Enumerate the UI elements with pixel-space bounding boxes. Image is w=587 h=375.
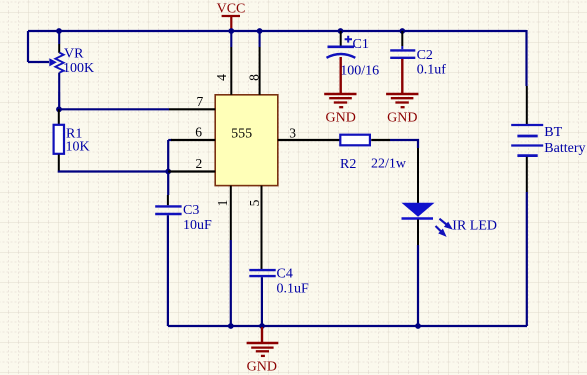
svg-text:Battery: Battery <box>544 141 585 156</box>
svg-text:22/1w: 22/1w <box>371 157 407 172</box>
wire: R2 to LED corner <box>390 140 418 148</box>
wire: pin6 horizontal <box>168 139 172 141</box>
svg-text:IR LED: IR LED <box>452 219 497 234</box>
wire: VR bottom to pin7 node <box>58 92 60 109</box>
svg-text:0.1uf: 0.1uf <box>417 63 447 78</box>
node: junction dot pin2/C3 <box>165 169 171 175</box>
svg-text:8: 8 <box>247 74 262 81</box>
svg-text:GND: GND <box>247 360 277 375</box>
svg-text:VR: VR <box>64 47 84 62</box>
pin 8 stub <box>259 31 261 47</box>
wire: bottom rail <box>168 325 527 327</box>
capacitor C3 10uF <box>155 195 212 233</box>
pin 1 stub <box>230 186 232 240</box>
capacitor C4 0.1uF <box>249 267 309 297</box>
svg-text:C1: C1 <box>353 37 369 52</box>
svg-text:100/16: 100/16 <box>340 63 379 78</box>
capacitor C1 100/16 (polarized) <box>327 31 380 78</box>
wire: R1 bottom to pin2 <box>59 171 168 172</box>
svg-text:3: 3 <box>289 126 296 141</box>
svg-text:10K: 10K <box>66 140 90 155</box>
svg-text:C2: C2 <box>417 48 433 63</box>
resistor R2 22/1w <box>340 135 407 172</box>
svg-text:GND: GND <box>387 111 417 126</box>
svg-text:100K: 100K <box>63 61 94 76</box>
svg-text:6: 6 <box>195 125 202 140</box>
wire: C3 bottom to bottom rail <box>167 215 169 326</box>
svg-text:R2: R2 <box>340 157 356 172</box>
wire: top-left branch vertical <box>27 31 29 62</box>
svg-text:C4: C4 <box>277 267 293 282</box>
svg-text:C3: C3 <box>183 203 199 218</box>
node: junction dot pin1/bottom rail <box>228 323 234 329</box>
LED D1 IR LED <box>402 148 498 245</box>
svg-text:1: 1 <box>215 200 230 207</box>
svg-text:GND: GND <box>326 111 356 126</box>
svg-text:7: 7 <box>196 94 203 109</box>
pin 4 stub <box>230 31 232 47</box>
svg-text:5: 5 <box>247 199 262 206</box>
wire: pin7 horizontal <box>59 108 169 110</box>
pin 3 stub <box>278 139 340 141</box>
svg-text:2: 2 <box>196 156 203 171</box>
power port GND under C2 <box>386 59 418 126</box>
IC U1 555 <box>215 95 278 186</box>
node: junction dot VR/R1/pin7 <box>56 106 62 112</box>
power port GND under C1 <box>324 57 356 126</box>
pin 7 stub <box>169 108 215 110</box>
power port GND bottom <box>247 327 279 375</box>
resistor R1 10K <box>54 109 90 170</box>
svg-text:0.1uF: 0.1uF <box>277 282 310 297</box>
capacitor C2 0.1uf <box>390 31 446 78</box>
pin 6 stub <box>171 139 215 141</box>
svg-text:VCC: VCC <box>217 2 246 17</box>
node: junction dot C4/bottom rail <box>259 323 265 329</box>
wire: pin6 vertical down through pin2 node to C3 <box>167 140 169 195</box>
pin 2 stub <box>168 170 215 172</box>
node: junction dots on top rail <box>56 28 405 34</box>
potentiometer VR 100K <box>49 31 94 92</box>
wire: battery to bottom rail <box>526 192 528 326</box>
svg-text:BT: BT <box>544 125 562 140</box>
wire: pin1 down to bottom rail <box>230 240 232 326</box>
svg-text:4: 4 <box>214 74 229 81</box>
wire: C4 bottom to rail <box>261 277 263 326</box>
wire: right rail down to battery <box>525 30 527 86</box>
node: junction dot LED/bottom rail <box>415 323 421 329</box>
wire: top power rail <box>28 30 527 32</box>
svg-text:555: 555 <box>231 126 252 141</box>
wire: LED to bottom rail <box>417 245 419 326</box>
wire: VR wiper horizontal <box>28 61 49 63</box>
svg-text:10uF: 10uF <box>183 218 212 233</box>
power port VCC <box>217 2 246 31</box>
battery BT <box>511 86 585 192</box>
pin 5 stub <box>261 186 263 269</box>
